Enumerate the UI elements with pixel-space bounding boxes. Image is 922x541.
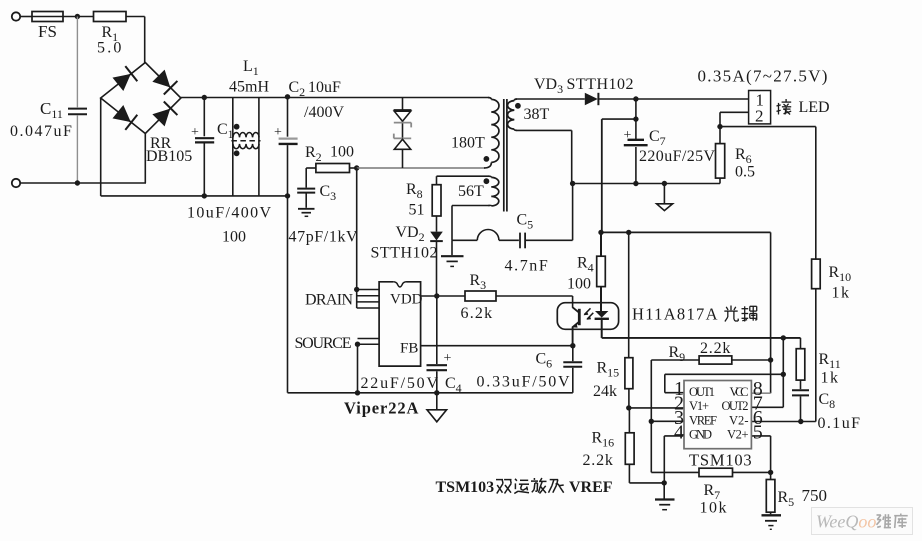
svg-text:0.047uF: 0.047uF	[10, 123, 73, 140]
capacitor C11	[76, 17, 78, 108]
op-amp U1 Viper22A	[379, 282, 421, 366]
bridge diode bottom-left	[113, 106, 130, 122]
text ji	[549, 480, 564, 493]
node junction out pair	[781, 335, 786, 340]
svg-text:45mH: 45mH	[229, 79, 269, 96]
text yun	[514, 479, 529, 494]
svg-text:10uF: 10uF	[308, 79, 341, 96]
wire	[20, 16, 32, 18]
resistor R10	[815, 127, 817, 260]
diode VD3 STTH102	[585, 93, 598, 105]
svg-text:100: 100	[222, 229, 246, 246]
node junction C2 bottom	[285, 193, 290, 198]
fuse FS	[32, 12, 63, 22]
capacitor C6	[572, 346, 574, 362]
watermark WeeQoo	[812, 508, 913, 535]
text guang (opto)	[724, 306, 738, 322]
node AC input bottom terminal	[12, 179, 20, 187]
svg-text:1k: 1k	[821, 370, 840, 387]
svg-text:4: 4	[674, 422, 684, 444]
wire bridge bottom to AC	[144, 134, 146, 184]
svg-text:180T: 180T	[451, 135, 485, 152]
wire sense row	[601, 231, 771, 233]
svg-text:/400V: /400V	[304, 104, 344, 121]
node junction SOURCE	[355, 342, 360, 347]
svg-text:2: 2	[755, 107, 764, 126]
wire C5 row with hop	[452, 239, 477, 241]
svg-text:56T: 56T	[458, 183, 484, 200]
svg-text:0.1uF: 0.1uF	[818, 415, 862, 432]
opto LED	[595, 311, 608, 318]
node junction C8 bottom	[798, 419, 803, 424]
svg-text:TSM103: TSM103	[436, 479, 495, 496]
text ku (watermark)	[894, 514, 908, 529]
wire V2+ pin	[751, 435, 770, 437]
wire 56T bottom	[452, 205, 489, 207]
ground output	[663, 184, 665, 204]
ground TSM103	[663, 483, 665, 499]
svg-text:5.0: 5.0	[97, 40, 124, 57]
bridge diode top-left	[113, 75, 130, 91]
resistor R16	[628, 408, 630, 433]
text fang	[531, 478, 547, 494]
text wei (watermark)	[877, 514, 892, 528]
resistor R5	[766, 480, 775, 513]
wire output +	[598, 98, 748, 100]
bridge diode bottom-right	[153, 109, 169, 125]
wire VD2 to VDD	[436, 241, 438, 296]
optocoupler U2 H11A817A	[557, 303, 618, 330]
transformer primary 180T	[488, 98, 491, 100]
ground 56T	[451, 240, 453, 255]
node junction R5 top	[768, 470, 773, 475]
svg-text:H11A817A: H11A817A	[632, 305, 719, 324]
svg-text:DB105: DB105	[146, 148, 192, 165]
svg-text:38T: 38T	[524, 106, 550, 123]
wire output return row	[573, 183, 720, 185]
wire DRAIN pins	[356, 168, 358, 308]
svg-text:2.2k: 2.2k	[700, 340, 731, 357]
svg-text:VREF: VREF	[689, 413, 717, 427]
node junction C4 bottom	[434, 390, 439, 395]
node phase dot 180T	[484, 156, 490, 162]
node junction C11 top	[75, 14, 80, 19]
clamp diode top VD1	[394, 111, 410, 121]
wire SOURCE pins	[358, 338, 380, 340]
wire feedback top	[720, 126, 816, 128]
node junction VDD	[434, 293, 439, 298]
svg-text:0.5: 0.5	[735, 164, 755, 181]
connector J1 to LED	[749, 91, 771, 124]
wire bridge minus to DC- rail	[100, 98, 102, 196]
capacitor C4	[436, 296, 438, 364]
node junction OUT pair	[781, 372, 786, 377]
svg-text:LED: LED	[799, 99, 830, 116]
svg-text:100: 100	[330, 144, 354, 161]
diode VD2 STTH102	[430, 232, 443, 241]
bridge diode top-right	[153, 71, 169, 87]
svg-text:OUT2: OUT2	[722, 399, 749, 413]
wire clamp branch	[402, 98, 404, 169]
svg-text:Viper22A: Viper22A	[344, 399, 419, 418]
capacitor C1	[203, 98, 205, 137]
wire R2 to primary bottom	[357, 167, 485, 169]
svg-text:47pF/1kV: 47pF/1kV	[289, 229, 359, 246]
capacitor C7	[635, 99, 637, 139]
op-amp U3 TSM103	[684, 381, 751, 449]
capacitor C2	[287, 98, 289, 137]
node phase dot 38T	[515, 103, 521, 109]
svg-text:10uF/400V: 10uF/400V	[187, 205, 273, 222]
svg-text:0.35A(7~27.5V): 0.35A(7~27.5V)	[698, 67, 829, 86]
wire V1+ row	[629, 407, 684, 409]
resistor R3	[465, 291, 496, 301]
svg-text:V2-: V2-	[729, 413, 749, 427]
capacitor C5	[519, 233, 521, 249]
wire	[63, 16, 94, 18]
svg-text:5: 5	[753, 422, 763, 444]
resistor R9	[651, 359, 699, 361]
resistor R1	[94, 12, 127, 22]
resistor R11	[800, 338, 802, 349]
inductor L1 45mH	[232, 98, 234, 196]
node junction output gnd	[662, 181, 667, 186]
opto transistor	[578, 309, 581, 325]
wire FB row	[421, 345, 573, 347]
wire VREF branch	[650, 360, 652, 472]
svg-text:WeeQoo: WeeQoo	[816, 512, 876, 532]
node junction FB C6	[570, 343, 575, 348]
svg-text:V1+: V1+	[689, 399, 709, 413]
svg-text:220uF/25V: 220uF/25V	[639, 148, 716, 165]
node junction R6 top	[717, 124, 722, 129]
node junction C11 bottom	[75, 180, 80, 185]
wire V2- row	[751, 421, 815, 423]
svg-text:+: +	[444, 351, 452, 366]
node junction R2 right	[354, 165, 359, 170]
wire GND pin	[664, 435, 684, 437]
svg-text:VDD: VDD	[390, 292, 423, 308]
wire 38T top	[517, 98, 585, 100]
transformer secondary 38T	[508, 101, 515, 130]
capacitor C8	[800, 380, 802, 389]
node phase dot 56T	[484, 178, 490, 184]
wire DC- rail	[101, 195, 288, 197]
node junction VREF	[649, 419, 654, 424]
ground C3	[298, 208, 315, 210]
wire primary ground rail	[288, 392, 573, 394]
capacitor C3	[305, 168, 307, 188]
svg-text:FB: FB	[400, 341, 418, 357]
svg-text:FS: FS	[38, 22, 57, 41]
wire sense tap	[602, 118, 636, 120]
node junction gnd tsm	[662, 480, 667, 485]
wire OUT1 jog	[665, 392, 684, 394]
svg-text:V2+: V2+	[727, 428, 749, 442]
text jie (connect)	[777, 99, 792, 115]
svg-text:TSM103: TSM103	[689, 451, 752, 470]
svg-text:STTH102: STTH102	[567, 76, 635, 93]
wire	[436, 216, 438, 232]
wire 56T top to R8	[437, 175, 490, 177]
wire 38T bottom drop	[517, 129, 572, 131]
svg-text:0.33uF/50V: 0.33uF/50V	[477, 374, 572, 391]
wire	[20, 182, 146, 184]
svg-text:GND: GND	[689, 428, 712, 442]
svg-text:10k: 10k	[700, 500, 729, 517]
resistor R2	[306, 167, 316, 169]
resistor R8	[432, 185, 441, 216]
node junction V1+	[626, 405, 631, 410]
node junction C1 bottom	[202, 193, 207, 198]
svg-text:24k: 24k	[593, 383, 617, 400]
svg-text:51: 51	[409, 202, 425, 219]
node junction R9 VCC	[768, 357, 773, 362]
node junction C2 top	[285, 94, 290, 99]
svg-text:22uF/50V: 22uF/50V	[361, 375, 440, 392]
node junction R15 top	[626, 230, 631, 235]
svg-text:1k: 1k	[832, 285, 851, 302]
ground Viper	[436, 393, 438, 410]
wire pin2	[720, 111, 749, 113]
clamp diode bottom VD0	[394, 137, 411, 139]
wire	[126, 16, 145, 18]
wire DC+ rail	[181, 97, 489, 99]
resistor R4	[600, 232, 602, 256]
svg-text:SOURCE: SOURCE	[295, 335, 352, 352]
svg-text:4.7nF: 4.7nF	[505, 258, 550, 275]
wire OUT2 jog	[751, 406, 783, 408]
transformer core	[503, 99, 505, 212]
node junction sense tap	[633, 116, 638, 121]
svg-text:6.2k: 6.2k	[461, 305, 494, 322]
text shuang	[496, 480, 512, 494]
node junction source rail	[355, 390, 360, 395]
node junction C1 top	[202, 95, 207, 100]
resistor R7	[651, 471, 699, 473]
node junction C7 bottom	[633, 181, 638, 186]
node AC input top terminal	[12, 12, 20, 20]
wire opto out row	[602, 337, 801, 339]
wire VCC branch	[770, 232, 772, 393]
bridge rectifier RR DB105	[101, 63, 181, 134]
transformer aux 56T	[491, 177, 499, 206]
resistor R6	[719, 127, 721, 144]
svg-text:100: 100	[567, 276, 591, 293]
wire R3 row	[421, 295, 465, 297]
wire	[144, 17, 146, 64]
svg-text:OUT1: OUT1	[689, 385, 715, 399]
wire primary ground drop	[287, 196, 289, 393]
resistor R15	[628, 232, 630, 357]
svg-text:2.2k: 2.2k	[583, 452, 614, 469]
ground R5	[770, 512, 772, 514]
svg-text:VREF: VREF	[569, 479, 613, 496]
text ou (coupler)	[742, 306, 757, 321]
svg-text:750: 750	[802, 486, 828, 505]
node junction R4 top	[598, 230, 603, 235]
svg-text:STTH102: STTH102	[371, 245, 439, 262]
node junction sec return	[570, 181, 575, 186]
svg-text:VCC: VCC	[730, 385, 749, 399]
svg-text:DRAIN: DRAIN	[305, 292, 353, 309]
opto light arrows	[584, 308, 590, 314]
node junction VD3 out	[633, 96, 638, 101]
